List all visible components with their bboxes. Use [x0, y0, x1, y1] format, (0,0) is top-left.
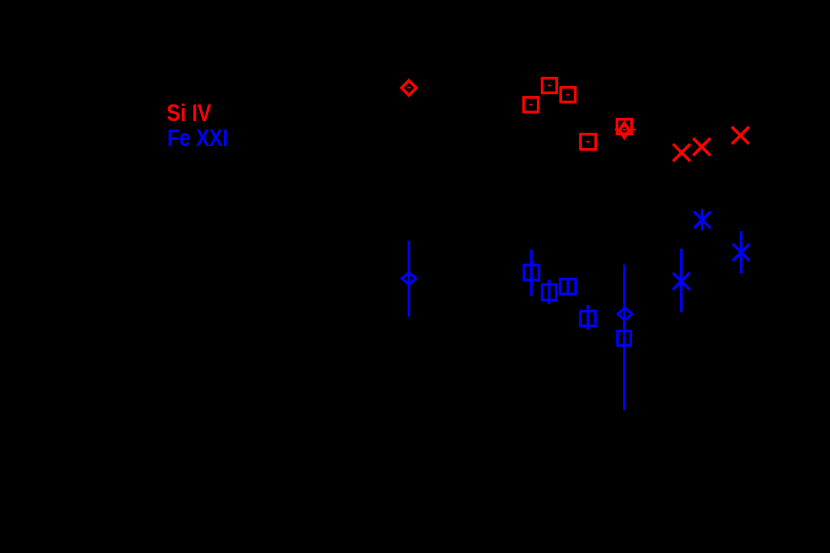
label Fe XXI (blue series) — [167, 124, 228, 151]
red square S1 — [542, 78, 557, 93]
red diamond marker D1 — [402, 81, 417, 96]
blue X marker X6 with error bar — [673, 249, 690, 312]
red X marker X1 — [673, 144, 690, 161]
svg-text:Fe XXI: Fe XXI — [167, 124, 228, 151]
red X marker X3 — [732, 127, 749, 144]
blue square B3 with short error bar — [560, 278, 576, 295]
blue square B5 — [618, 331, 631, 345]
red square S5 (overlaps diamond D2) — [617, 119, 632, 134]
red square S3 — [524, 97, 539, 112]
red square S2 — [561, 87, 576, 102]
red X marker X2 — [693, 138, 710, 155]
blue X marker X4 with error bar — [694, 209, 711, 231]
blue square B2 with error bar — [542, 280, 556, 304]
blue diamond D5 — [618, 308, 632, 321]
red diamond D2 with horizontal error bar — [615, 123, 636, 138]
blue X marker X5 with error bar — [733, 231, 750, 273]
blue diamond D3 with error bar — [402, 241, 416, 317]
blue long error bar through D5 and B5 — [623, 265, 626, 411]
blue square B1 with error bar — [524, 250, 539, 297]
red square S4 — [581, 134, 596, 149]
label Si IV (red series) — [167, 99, 212, 126]
blue square B4 with error bar — [580, 305, 595, 330]
svg-text:Si IV: Si IV — [167, 99, 212, 126]
